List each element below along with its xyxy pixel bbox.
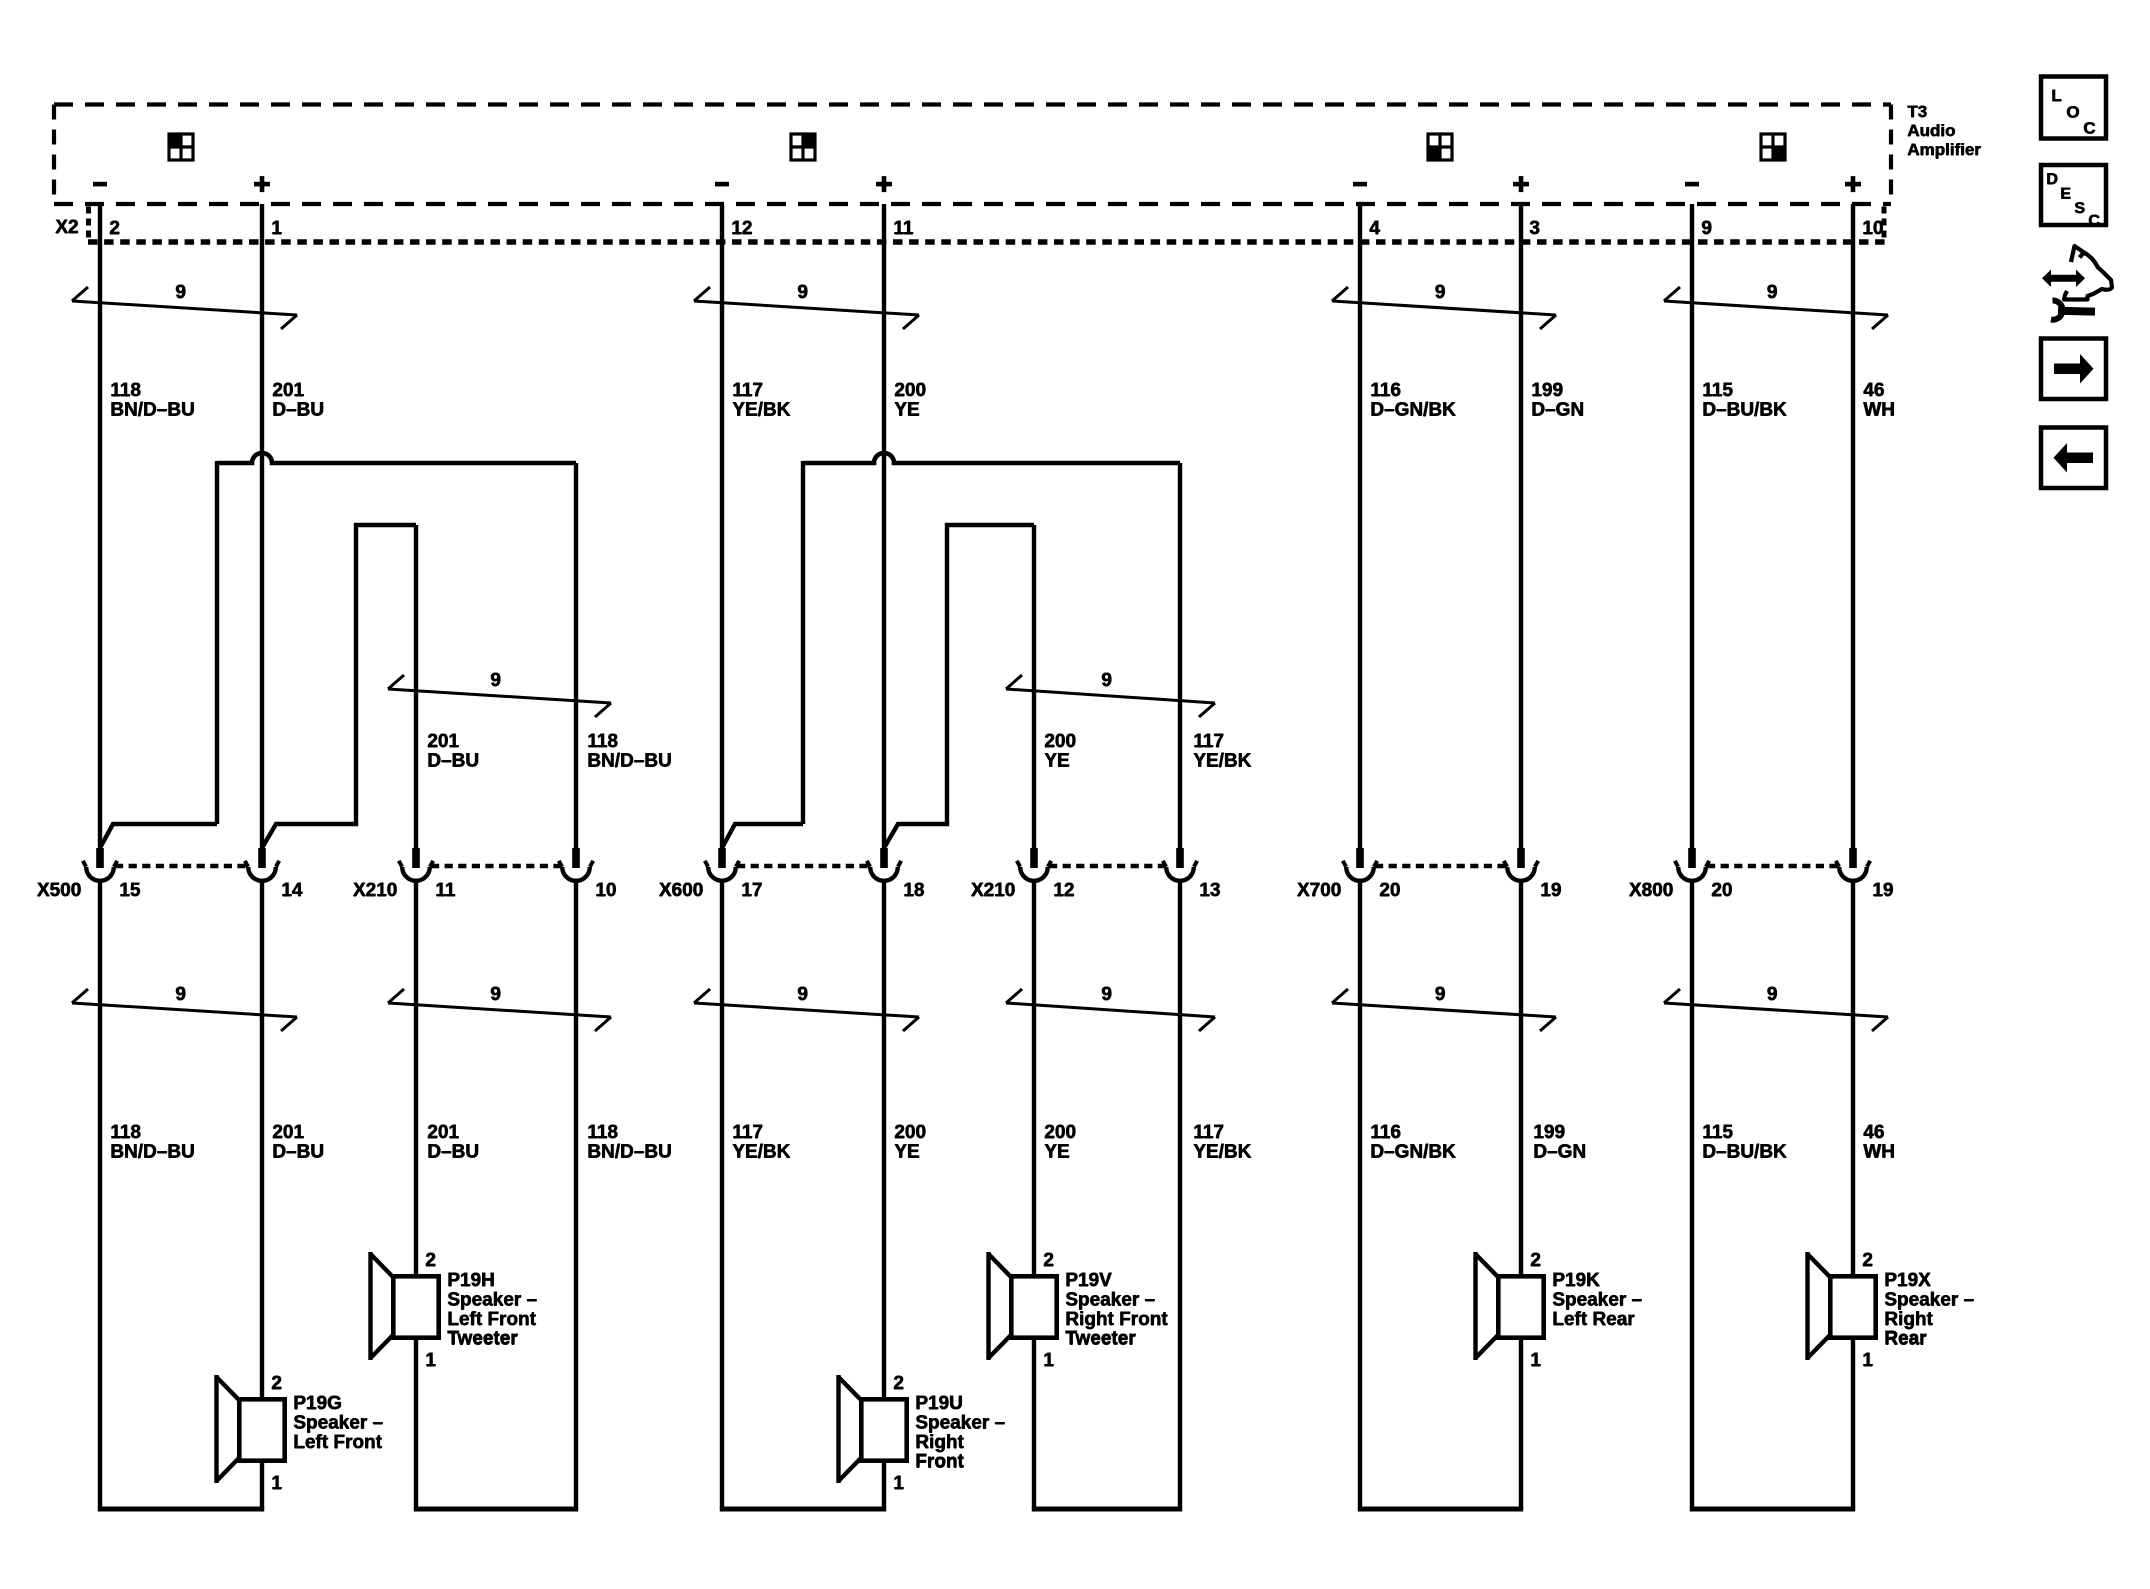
svg-text:X600: X600 — [659, 881, 703, 902]
in-line connector X210 pin 11 (left half) — [412, 848, 420, 868]
wire branch 118 BN/D-BU horizontal with hop over 201 wire (group 1) — [217, 453, 576, 463]
wire 199 D-GN from speaker P19K pin 1 to return — [1519, 1340, 1523, 1509]
svg-text:BN/D–BU: BN/D–BU — [587, 751, 671, 772]
twisted pair marker 9 (bottom pair 3) — [694, 989, 919, 1031]
svg-text:115: 115 — [1702, 1123, 1733, 1144]
svg-text:200: 200 — [894, 381, 926, 402]
wire 117 YE/BK from X2 pin 12 to X600 pin 17 — [720, 204, 724, 850]
return wire bottom link pair 5 (P19K loop) — [1358, 1507, 1523, 1512]
LOC reference icon — [2041, 77, 2106, 139]
svg-text:D–GN/BK: D–GN/BK — [1370, 400, 1456, 421]
svg-text:20: 20 — [1379, 881, 1400, 902]
svg-text:2: 2 — [425, 1251, 436, 1272]
svg-text:199: 199 — [1531, 381, 1563, 402]
wire 46 WH from speaker P19X pin 1 to return — [1851, 1340, 1855, 1509]
svg-text:BN/D–BU: BN/D–BU — [110, 1142, 194, 1163]
svg-text:117: 117 — [1193, 732, 1224, 753]
svg-text:14: 14 — [281, 881, 303, 902]
svg-text:2: 2 — [1862, 1251, 1873, 1272]
twisted pair marker 9 (branch group 2) — [1006, 675, 1215, 717]
svg-text:201: 201 — [427, 1123, 459, 1144]
wire 201 D-BU from X2 pin 1 to X500 pin 14 — [260, 204, 264, 850]
twisted pair marker 9 (top group 2) — [694, 287, 919, 329]
polarity mark group 3 plus — [1513, 182, 1529, 187]
svg-text:Rear: Rear — [1884, 1329, 1927, 1350]
svg-text:118: 118 — [587, 1123, 618, 1144]
svg-text:3: 3 — [1529, 219, 1540, 240]
in-line connector X210 pin 12 (left half) — [1030, 848, 1038, 868]
wire branch drop to X600 pin 17 junction (group 2) — [801, 461, 805, 824]
svg-text:200: 200 — [894, 1123, 926, 1144]
polarity mark group 3 minus — [1353, 182, 1367, 187]
svg-text:D–BU: D–BU — [427, 1142, 479, 1163]
wire 201 D-BU from speaker P19H pin 1 to return — [414, 1340, 418, 1509]
wire 201 D-BU branch to X210 pin 11 — [414, 525, 418, 850]
svg-text:201: 201 — [272, 1123, 304, 1144]
wire branch 201 D-BU from X500 pin 14 to X210 pin 11 (group 1) — [262, 525, 416, 848]
svg-text:46: 46 — [1863, 1123, 1884, 1144]
wire 200 YE below X210 pin 12 to speaker P19V — [1032, 879, 1036, 1276]
svg-text:D–BU/BK: D–BU/BK — [1702, 1142, 1787, 1163]
svg-text:9: 9 — [1767, 283, 1778, 304]
svg-text:D–BU: D–BU — [427, 751, 479, 772]
connector icon group 2 (quadrant top-right) — [791, 134, 815, 160]
wire 46 WH below X800 pin 19 to speaker P19X — [1851, 879, 1855, 1276]
return wire bottom link pair 3 (P19U loop) — [720, 1507, 886, 1512]
svg-text:117: 117 — [732, 1123, 763, 1144]
twisted pair marker 9 (bottom pair 1) — [72, 989, 297, 1031]
connector X500 dashed link — [115, 864, 247, 868]
svg-text:9: 9 — [1435, 985, 1446, 1006]
vehicle harness / wrench icon — [2042, 246, 2112, 320]
svg-text:1: 1 — [271, 1474, 282, 1495]
wire 118 BN/D-BU below X210 pin 10 — [574, 879, 578, 1509]
return wire bottom link pair 6 (P19X loop) — [1690, 1507, 1855, 1512]
svg-text:Amplifier: Amplifier — [1907, 141, 1981, 160]
return wire bottom link pair 1 (P19G loop) — [98, 1507, 264, 1512]
speaker P19K symbol — [1476, 1252, 1544, 1360]
twisted pair marker 9 (bottom pair 4) — [1006, 989, 1215, 1031]
svg-text:9: 9 — [1101, 985, 1112, 1006]
in-line connector X800 pin 19 (right half) — [1849, 848, 1857, 868]
forward arrow icon — [2041, 339, 2106, 400]
svg-text:YE: YE — [894, 1142, 919, 1163]
twisted pair marker 9 (bottom pair 6) — [1664, 989, 1888, 1031]
in-line connector X500 pin 14 (right half) — [258, 848, 266, 868]
in-line connector X600 pin 18 (right half) — [880, 848, 888, 868]
svg-text:YE: YE — [1044, 1142, 1069, 1163]
svg-text:9: 9 — [175, 283, 186, 304]
svg-text:X800: X800 — [1629, 881, 1673, 902]
svg-text:9: 9 — [490, 671, 501, 692]
svg-text:1: 1 — [271, 219, 282, 240]
wire 115 D-BU/BK from X2 pin 9 to X800 pin 20 — [1690, 204, 1694, 850]
svg-text:X500: X500 — [37, 881, 81, 902]
svg-text:D–BU: D–BU — [272, 1142, 324, 1163]
svg-text:1: 1 — [1862, 1351, 1873, 1372]
speaker P19H symbol — [371, 1252, 439, 1360]
svg-text:117: 117 — [1193, 1123, 1224, 1144]
amplifier T3 dashed outline box — [54, 105, 1891, 205]
wire 116 D-GN/BK below X700 pin 20 — [1358, 879, 1362, 1509]
twisted pair marker 9 (bottom pair 2) — [388, 989, 611, 1031]
svg-text:118: 118 — [110, 381, 141, 402]
wire 118 BN/D-BU below X500 pin 15 — [98, 879, 102, 1509]
svg-text:E: E — [2060, 186, 2071, 203]
svg-text:10: 10 — [1862, 219, 1883, 240]
svg-text:X210: X210 — [971, 881, 1015, 902]
svg-text:2: 2 — [893, 1374, 904, 1395]
svg-text:15: 15 — [119, 881, 141, 902]
svg-text:19: 19 — [1872, 881, 1893, 902]
svg-text:9: 9 — [1435, 283, 1446, 304]
svg-text:10: 10 — [595, 881, 616, 902]
wire 199 D-GN from X2 pin 3 to X700 pin 19 — [1519, 204, 1523, 850]
svg-text:Audio: Audio — [1907, 122, 1955, 141]
wire 200 YE from speaker P19V pin 1 to return — [1032, 1340, 1036, 1509]
svg-text:YE/BK: YE/BK — [1193, 1142, 1251, 1163]
svg-text:9: 9 — [175, 985, 186, 1006]
svg-text:9: 9 — [1101, 671, 1112, 692]
svg-text:Left Rear: Left Rear — [1552, 1309, 1635, 1330]
svg-text:X700: X700 — [1297, 881, 1341, 902]
svg-text:O: O — [2066, 103, 2079, 122]
wire 118 BN/D-BU from X2 pin 2 to X500 pin 15 — [98, 204, 102, 850]
svg-text:201: 201 — [272, 381, 304, 402]
svg-text:9: 9 — [1701, 219, 1712, 240]
in-line connector X210 pin 13 (right half) — [1176, 848, 1184, 868]
svg-text:BN/D–BU: BN/D–BU — [110, 400, 194, 421]
svg-text:17: 17 — [741, 881, 762, 902]
wire 117 YE/BK branch to X210 pin 13 — [1178, 463, 1182, 850]
svg-text:12: 12 — [1053, 881, 1074, 902]
svg-text:WH: WH — [1863, 1142, 1895, 1163]
speaker P19X symbol — [1808, 1252, 1876, 1360]
svg-text:9: 9 — [490, 985, 501, 1006]
connector X2 band right dashed edge — [1882, 207, 1887, 243]
svg-text:D: D — [2046, 172, 2058, 189]
wire 199 D-GN below X700 pin 19 to speaker P19K — [1519, 879, 1523, 1276]
svg-text:20: 20 — [1711, 881, 1732, 902]
in-line connector X700 pin 19 (right half) — [1517, 848, 1525, 868]
svg-text:116: 116 — [1370, 1123, 1401, 1144]
svg-text:1: 1 — [1043, 1351, 1054, 1372]
svg-text:12: 12 — [731, 219, 752, 240]
svg-text:19: 19 — [1540, 881, 1561, 902]
connector icon group 3 (quadrant bottom-left) — [1428, 134, 1452, 160]
svg-text:1: 1 — [1530, 1351, 1541, 1372]
svg-text:200: 200 — [1044, 1123, 1076, 1144]
polarity mark group 2 plus — [876, 182, 892, 187]
svg-text:X2: X2 — [55, 218, 78, 239]
connector X700 dashed link — [1375, 864, 1506, 868]
wire branch drop to X500 pin 15 junction (group 1) — [215, 461, 219, 824]
svg-text:9: 9 — [797, 283, 808, 304]
twisted pair marker 9 (top group 1) — [72, 287, 297, 329]
polarity mark group 4 minus — [1685, 182, 1699, 187]
connector icon group 4 (quadrant bottom-right) — [1761, 134, 1785, 160]
wire 200 YE below X600 pin 18 to speaker P19U — [882, 879, 886, 1399]
svg-text:T3: T3 — [1907, 103, 1927, 122]
svg-text:YE/BK: YE/BK — [1193, 751, 1251, 772]
svg-text:2: 2 — [109, 219, 120, 240]
twisted pair marker 9 (top group 4) — [1664, 287, 1888, 329]
svg-text:200: 200 — [1044, 732, 1076, 753]
svg-text:11: 11 — [435, 881, 456, 902]
svg-text:S: S — [2074, 201, 2085, 218]
speaker P19V symbol — [989, 1252, 1057, 1360]
connector X2 band left dashed edge — [86, 207, 91, 243]
svg-text:D–BU: D–BU — [272, 400, 324, 421]
DESC reference icon — [2041, 165, 2106, 230]
wire 200 YE branch to X210 pin 12 — [1032, 525, 1036, 850]
polarity mark group 2 minus — [715, 182, 729, 187]
wire jog into X500 pin 15 — [100, 824, 217, 848]
return wire bottom link pair 4 (P19V loop) — [1032, 1507, 1182, 1512]
svg-text:D–GN: D–GN — [1531, 400, 1584, 421]
svg-text:118: 118 — [110, 1123, 141, 1144]
svg-text:117: 117 — [732, 381, 763, 402]
wire 201 D-BU from speaker P19G pin 1 to return — [260, 1463, 264, 1509]
svg-text:YE: YE — [894, 400, 919, 421]
svg-text:WH: WH — [1863, 400, 1895, 421]
wire 46 WH from X2 pin 10 to X800 pin 19 — [1851, 204, 1855, 850]
twisted pair marker 9 (branch group 1) — [388, 675, 611, 717]
svg-text:9: 9 — [1767, 985, 1778, 1006]
wire branch 117 YE/BK horizontal with hop over 200 wire (group 2) — [803, 453, 1180, 463]
svg-text:9: 9 — [797, 985, 808, 1006]
svg-text:1: 1 — [893, 1474, 904, 1495]
svg-text:X210: X210 — [353, 881, 397, 902]
polarity mark group 1 plus — [254, 182, 270, 187]
in-line connector X500 pin 15 (left half) — [96, 848, 104, 868]
wire 201 D-BU below X210 pin 11 to speaker P19H — [414, 879, 418, 1276]
speaker P19U symbol — [839, 1375, 907, 1483]
speaker P19G symbol — [217, 1375, 285, 1483]
svg-text:118: 118 — [587, 732, 618, 753]
connector X600 dashed link — [737, 864, 869, 868]
svg-text:Tweeter: Tweeter — [447, 1329, 518, 1350]
svg-text:C: C — [2088, 213, 2100, 230]
connector icon group 1 (quadrant top-left) — [169, 134, 193, 160]
connector X800 dashed link — [1707, 864, 1838, 868]
connector X210 dashed link — [1049, 864, 1165, 868]
in-line connector X210 pin 10 (right half) — [572, 848, 580, 868]
back arrow icon — [2041, 428, 2106, 489]
svg-text:D–BU/BK: D–BU/BK — [1702, 400, 1787, 421]
twisted pair marker 9 (top group 3) — [1332, 287, 1556, 329]
svg-text:11: 11 — [893, 219, 914, 240]
svg-text:2: 2 — [1530, 1251, 1541, 1272]
svg-text:2: 2 — [271, 1374, 282, 1395]
wire 116 D-GN/BK from X2 pin 4 to X700 pin 20 — [1358, 204, 1362, 850]
connector X2 band dotted line — [88, 239, 1886, 245]
in-line connector X700 pin 20 (left half) — [1356, 848, 1364, 868]
wire 201 D-BU below X500 pin 14 to speaker P19G — [260, 879, 264, 1399]
svg-text:D–GN: D–GN — [1533, 1142, 1586, 1163]
wire 115 D-BU/BK below X800 pin 20 — [1690, 879, 1694, 1509]
in-line connector X800 pin 20 (left half) — [1688, 848, 1696, 868]
return wire bottom link pair 2 (P19H loop) — [414, 1507, 578, 1512]
svg-text:2: 2 — [1043, 1251, 1054, 1272]
svg-text:116: 116 — [1370, 381, 1401, 402]
in-line connector X600 pin 17 (left half) — [718, 848, 726, 868]
svg-text:115: 115 — [1702, 381, 1733, 402]
svg-text:BN/D–BU: BN/D–BU — [587, 1142, 671, 1163]
wire 200 YE from X2 pin 11 to X600 pin 18 — [882, 204, 886, 850]
wire 200 YE from speaker P19U pin 1 to return — [882, 1463, 886, 1509]
svg-text:YE/BK: YE/BK — [732, 1142, 790, 1163]
wire 118 BN/D-BU branch to X210 pin 10 — [574, 463, 578, 850]
twisted pair marker 9 (bottom pair 5) — [1332, 989, 1556, 1031]
svg-text:C: C — [2083, 119, 2095, 138]
svg-text:Left Front: Left Front — [293, 1432, 382, 1453]
wire 117 YE/BK below X210 pin 13 — [1178, 879, 1182, 1509]
wire jog into X600 pin 17 — [722, 824, 803, 848]
svg-text:1: 1 — [425, 1351, 436, 1372]
svg-text:Tweeter: Tweeter — [1065, 1329, 1136, 1350]
svg-text:46: 46 — [1863, 381, 1884, 402]
svg-text:YE: YE — [1044, 751, 1069, 772]
svg-text:Front: Front — [915, 1452, 964, 1473]
svg-text:199: 199 — [1533, 1123, 1565, 1144]
connector X210 dashed link — [431, 864, 561, 868]
polarity mark group 1 minus — [93, 182, 107, 187]
svg-text:13: 13 — [1199, 881, 1220, 902]
wire 117 YE/BK below X600 pin 17 — [720, 879, 724, 1509]
wire branch 200 YE from X600 pin 18 to X210 pin 12 (group 2) — [884, 525, 1034, 848]
svg-text:4: 4 — [1369, 219, 1380, 240]
polarity mark group 4 plus — [1845, 182, 1861, 187]
svg-text:YE/BK: YE/BK — [732, 400, 790, 421]
svg-text:L: L — [2051, 87, 2061, 106]
svg-text:D–GN/BK: D–GN/BK — [1370, 1142, 1456, 1163]
svg-text:201: 201 — [427, 732, 459, 753]
svg-text:18: 18 — [903, 881, 924, 902]
